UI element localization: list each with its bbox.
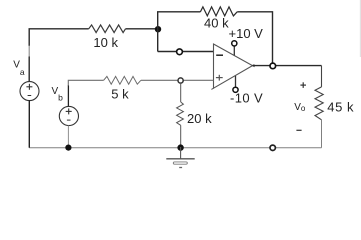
node junction dot at 10k/40k: [155, 26, 161, 32]
wire: bottom rail: [29, 147, 321, 149]
wire: 10k to junction: [126, 28, 158, 30]
svg-text:Vb: Vb: [52, 86, 64, 103]
wire: Vb source top lead: [67, 86, 69, 107]
terminal open circle on bottom rail: [270, 145, 275, 150]
op-amp plus input label: [216, 77, 223, 79]
resistor 40 k: [200, 7, 237, 16]
node junction dot 20k/rail: [177, 144, 183, 150]
svg-text:5 k: 5 k: [111, 87, 129, 102]
label + of Vo: [300, 84, 306, 86]
wire: output from op-amp to right rail: [253, 65, 322, 67]
svg-text:45 k: 45 k: [327, 100, 354, 115]
wire: inverting input horizontal: [158, 51, 214, 53]
wire: bottom-left corner overshoot: [211, 88, 213, 89]
op-amp U1: [214, 44, 253, 88]
terminal open circle on noninverting input: [178, 78, 183, 83]
ground symbol: [180, 147, 182, 159]
wire: junction vertical up to 40k and down to inverting input: [158, 12, 201, 52]
svg-text:10 k: 10 k: [93, 35, 118, 50]
resistor 45 k: [315, 87, 323, 120]
terminal open circle on inverting input: [177, 49, 183, 55]
wire: 40k to right feedback vertical down to output node: [237, 12, 272, 63]
wire: apex overshoot ticks: [253, 66, 255, 67]
node output open circle: [270, 63, 276, 69]
source Vb: [59, 106, 78, 125]
wire: right rail lower: [321, 120, 323, 148]
wire: 20k top lead: [180, 83, 182, 102]
wire: right rail upper: [321, 66, 323, 87]
op-amp minus input label: [216, 54, 223, 56]
wire: top-left corner Va loop (vertical + 10k horizontal lead): [29, 29, 88, 46]
svg-text:40 k: 40 k: [204, 15, 229, 30]
resistor 5 k: [104, 76, 141, 84]
svg-text:-10 V: -10 V: [230, 91, 263, 106]
svg-text:Vo: Vo: [294, 102, 306, 113]
node junction dot Vb/rail: [65, 145, 71, 151]
resistor 20 k: [177, 102, 184, 125]
svg-text:Va: Va: [13, 60, 25, 77]
source Va: [20, 82, 39, 101]
resistor 10 k: [89, 25, 126, 33]
svg-text:+10 V: +10 V: [229, 26, 264, 41]
wire: gray mid segment of Va riser: [28, 46, 30, 58]
wire: Vb riser and 5k lead: [68, 80, 103, 86]
svg-text:20 k: 20 k: [187, 111, 212, 126]
wire: 20k bottom lead: [180, 125, 182, 147]
label - of Vo: [296, 129, 301, 131]
+10 V supply terminal: [233, 46, 235, 55]
wire: 5k to noninverting input: [141, 79, 214, 81]
faint scan artifact right edge: [359, 0, 361, 57]
wire: Vb to bottom rail: [67, 126, 69, 148]
-10 V supply terminal: [235, 76, 237, 87]
wire: Va to bottom rail: [28, 100, 30, 147]
wire: Va source top lead: [28, 57, 30, 82]
